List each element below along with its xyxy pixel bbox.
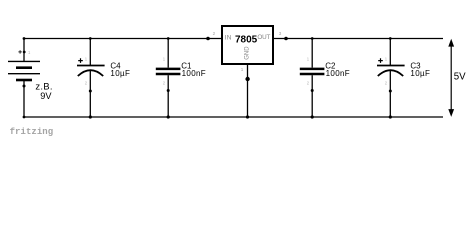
- node battery minus pin end: [23, 85, 26, 88]
- svg-text:fritzing: fritzing: [10, 127, 54, 137]
- wire bottom rail (ground bus): [24, 116, 443, 118]
- wire C4 top lead: [89, 39, 91, 66]
- wire top rail left (battery + to 7805 IN): [24, 38, 221, 40]
- C3 plus sign: [378, 58, 383, 63]
- wire battery top lead: [23, 39, 25, 62]
- node C3 minus pin end: [389, 90, 392, 93]
- wire C3 bottom lead: [389, 71, 391, 118]
- wire C2 bottom lead: [311, 75, 313, 117]
- 7805 OUT pin end dot: [284, 37, 288, 41]
- 7805 GND pin end dot: [245, 77, 249, 81]
- svg-text:100nF: 100nF: [326, 69, 350, 78]
- node C4 bottom junction: [89, 115, 92, 118]
- node battery plus pin end: [23, 51, 26, 54]
- wire C4 bottom lead: [89, 71, 91, 118]
- arrow shaft: [450, 43, 452, 113]
- node C1 top junction: [167, 37, 170, 40]
- wire C2 top lead: [311, 39, 313, 68]
- voltage regulator U1 7805: [206, 26, 288, 117]
- svg-text:GND: GND: [245, 46, 251, 60]
- node C4 minus pin end: [89, 90, 92, 93]
- capacitor C2 100nF: [300, 39, 350, 118]
- svg-text:5V: 5V: [454, 72, 466, 83]
- wire battery bottom lead: [23, 80, 25, 117]
- 7805 body: [222, 26, 273, 64]
- node C2 bottom junction: [311, 115, 314, 118]
- C2 plate bottom: [300, 73, 325, 76]
- node C3 bottom junction: [389, 115, 392, 118]
- capacitor C1 100nF: [156, 39, 206, 118]
- node C3 top junction: [389, 37, 392, 40]
- svg-text:10µF: 10µF: [110, 69, 130, 78]
- C4 plate negative curved: [78, 70, 103, 76]
- C1 plate top: [156, 68, 181, 71]
- svg-text:2: 2: [213, 31, 216, 36]
- svg-text:3: 3: [279, 31, 282, 36]
- C2 plate top: [300, 68, 325, 71]
- node C4 top junction: [89, 37, 92, 40]
- node battery bottom corner: [23, 116, 26, 119]
- node C2 bottom pin end: [311, 89, 314, 92]
- battery plate long positive 1: [8, 60, 40, 62]
- svg-text:100nF: 100nF: [182, 69, 206, 78]
- arrow head down: [448, 109, 454, 117]
- 7805 IN pin end dot: [206, 37, 210, 41]
- wire C1 bottom lead: [167, 75, 169, 117]
- capacitor C3 10uF electrolytic: [377, 39, 430, 118]
- output voltage annotation arrow 5V: [448, 39, 466, 117]
- C3 plate positive straight: [377, 65, 405, 67]
- node battery top corner: [23, 37, 26, 40]
- svg-text:10µF: 10µF: [410, 69, 430, 78]
- battery BT1 z.B. 9V: [8, 39, 53, 118]
- wire C3 top lead: [389, 39, 391, 66]
- wire top rail right (7805 OUT to output): [274, 38, 443, 40]
- battery plate short negative 1: [16, 66, 32, 69]
- C4 plate positive straight: [77, 65, 105, 67]
- node C1 bottom junction: [167, 115, 170, 118]
- node 7805 GND bottom junction: [246, 115, 249, 118]
- svg-text:1: 1: [241, 67, 244, 72]
- svg-text:9V: 9V: [40, 91, 52, 101]
- node C2 top junction: [311, 37, 314, 40]
- battery plate long positive 2: [8, 73, 40, 75]
- C3 plate negative curved: [378, 70, 403, 76]
- battery plate short negative 2: [16, 79, 32, 82]
- wire C1 top lead: [167, 39, 169, 68]
- battery plus sign: [18, 50, 21, 53]
- svg-text:IN: IN: [225, 34, 232, 41]
- capacitor C4 10uF electrolytic: [77, 39, 130, 118]
- C4 plus sign: [78, 58, 83, 63]
- wire 7805 GND lead: [247, 65, 249, 117]
- C1 plate bottom: [156, 73, 181, 76]
- svg-text:7805: 7805: [235, 35, 258, 46]
- node C1 bottom pin end: [167, 89, 170, 92]
- svg-text:OUT: OUT: [257, 34, 270, 41]
- arrow head up: [448, 39, 454, 47]
